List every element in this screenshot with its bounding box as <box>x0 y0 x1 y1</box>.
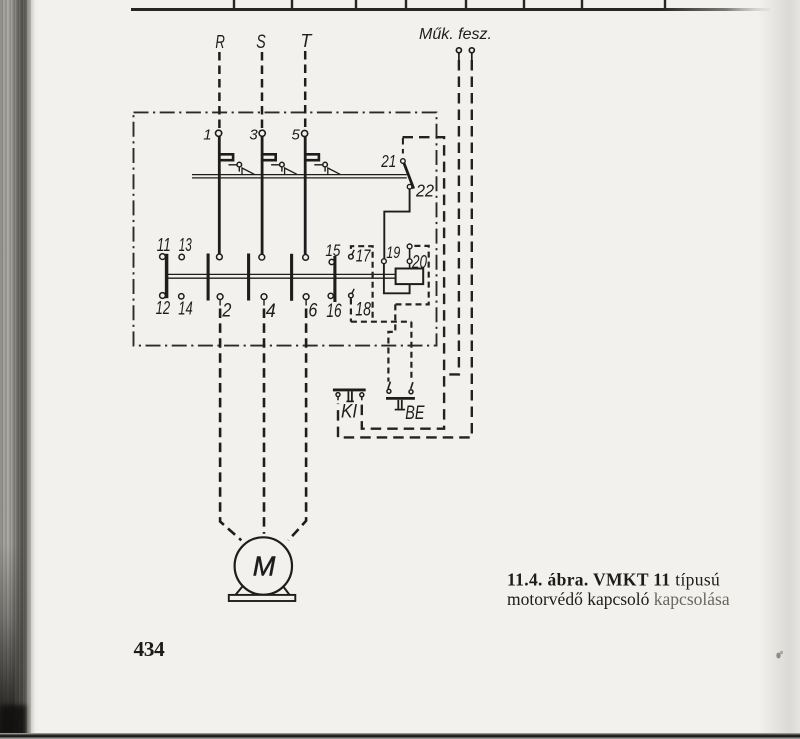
svg-text:16: 16 <box>326 301 342 322</box>
svg-text:M: M <box>253 551 276 582</box>
svg-text:14: 14 <box>178 298 193 319</box>
svg-text:13: 13 <box>179 234 192 255</box>
svg-text:21: 21 <box>381 151 397 171</box>
svg-text:KI: KI <box>341 402 358 423</box>
svg-text:22: 22 <box>415 180 434 200</box>
svg-text:T: T <box>300 30 313 51</box>
svg-text:11.4. ábra. VMKT 11 típusú: 11.4. ábra. VMKT 11 típusú <box>507 570 720 590</box>
svg-text:18: 18 <box>355 299 371 320</box>
svg-text:2: 2 <box>222 301 232 322</box>
svg-text:5: 5 <box>292 127 301 144</box>
svg-text:Műk. fesz.: Műk. fesz. <box>419 26 492 43</box>
svg-text:11: 11 <box>157 234 171 255</box>
svg-text:434: 434 <box>134 637 166 661</box>
svg-text:19: 19 <box>386 244 400 262</box>
svg-text:17: 17 <box>356 245 372 265</box>
svg-text:6: 6 <box>308 301 317 322</box>
svg-text:1: 1 <box>203 126 211 143</box>
svg-text:12: 12 <box>156 297 171 318</box>
svg-text:BE: BE <box>405 403 424 424</box>
svg-text:20: 20 <box>411 251 427 272</box>
svg-text:15: 15 <box>325 242 341 260</box>
svg-text:S: S <box>256 32 266 53</box>
svg-text:motorvédő kapcsoló kapcsolása: motorvédő kapcsoló kapcsolása <box>507 589 730 609</box>
svg-text:4: 4 <box>266 301 276 322</box>
svg-text:R: R <box>215 31 225 52</box>
svg-text:3: 3 <box>249 127 258 144</box>
